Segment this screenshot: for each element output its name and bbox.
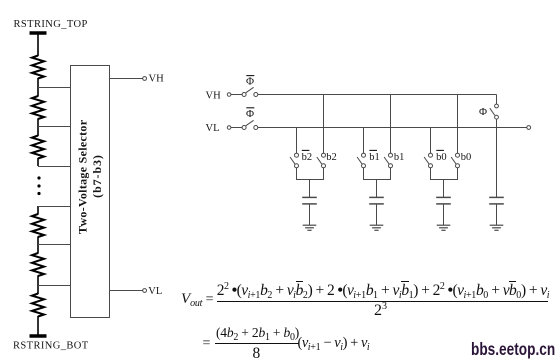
svg-text:Φ: Φ <box>246 76 254 88</box>
capacitor C2 <box>302 196 317 198</box>
resistor R2 <box>32 96 44 119</box>
equation line2 equals <box>203 337 211 351</box>
block U1 Two-Voltage Selector <box>71 66 110 318</box>
switch S3 top contact <box>495 104 499 108</box>
equation line1 denominator <box>374 303 387 319</box>
terminal bar RSTRING_BOT <box>30 334 47 337</box>
switch S3 phi (right) <box>489 95 504 231</box>
svg-text:VL: VL <box>206 123 220 134</box>
switch S1 right contact <box>254 93 258 97</box>
wire resistor string vertical segments <box>37 33 39 56</box>
wire b0 to join bar <box>457 168 459 180</box>
wire b2 drop from VH <box>323 95 325 154</box>
svg-text:RSTRING_TOP: RSTRING_TOP <box>14 19 88 30</box>
svg-text:b0: b0 <box>436 152 447 163</box>
bit group b2 <box>290 95 326 231</box>
ground (C0) <box>437 224 451 226</box>
wire tap6 <box>38 285 71 287</box>
wire VL rail <box>258 127 527 129</box>
terminal circle output <box>527 126 531 130</box>
wire VH rail <box>258 94 497 96</box>
wire VH terminal to switch <box>231 94 242 96</box>
svg-text:RSTRING_BOT: RSTRING_BOT <box>13 341 89 352</box>
switch b2bar lever <box>290 157 295 164</box>
wire join bar b0 <box>430 179 458 181</box>
switch S2 phi-bar on VL: left contact <box>242 126 246 130</box>
switch b0bar lever <box>424 157 429 164</box>
wire S3 to VL rail and hold capacitor <box>496 119 498 197</box>
switch S3 bottom contact <box>495 115 499 119</box>
resistor R1 <box>32 56 44 79</box>
bit group b1 <box>357 95 392 231</box>
wire capacitor C0 to ground <box>443 204 445 225</box>
switch S1 phi-bar on VH: left contact <box>242 93 246 97</box>
wire b1 drop from VH <box>390 95 392 154</box>
wire tap1 <box>38 87 71 89</box>
wire VH corner down <box>496 95 498 105</box>
equation line2 numerator <box>216 326 299 340</box>
switch b0bar bottom contact <box>429 164 433 168</box>
wire b2bar to join bar <box>296 168 298 180</box>
wire capacitor C2 to ground <box>309 204 311 225</box>
ground (C1) <box>370 224 384 226</box>
svg-text:(b7-b3): (b7-b3) <box>90 154 104 198</box>
svg-text:VH: VH <box>149 74 165 85</box>
bit group b0 <box>424 95 459 231</box>
resistor R3 <box>32 136 44 159</box>
resistor R6 <box>32 294 44 317</box>
wire b1 to join bar <box>390 168 392 180</box>
svg-text:Φ: Φ <box>246 108 254 120</box>
wire b0bar drop from VL <box>430 128 432 154</box>
wire bar to capacitor C0 <box>443 180 445 198</box>
svg-text:b2: b2 <box>302 152 313 163</box>
wire join bar b1 <box>363 179 391 181</box>
equation Vout lhs <box>181 292 213 307</box>
equation line1 numerator <box>217 281 549 299</box>
switch S3 lever <box>490 108 495 115</box>
terminal bar RSTRING_TOP <box>30 31 47 34</box>
wire tap2 <box>38 126 71 128</box>
switch b1 top contact <box>389 153 393 157</box>
wire b1bar to join bar <box>363 168 365 180</box>
wire b1bar drop from VL <box>363 128 365 154</box>
switch b0bar top contact <box>429 153 433 157</box>
terminal circle VL input <box>227 126 231 130</box>
switch b0 top contact <box>456 153 460 157</box>
wire bar to capacitor C1 <box>376 180 378 198</box>
svg-text:VH: VH <box>206 91 222 102</box>
capacitor C0 <box>436 196 451 198</box>
switch S2 lever <box>246 120 254 125</box>
switch b1bar bottom contact <box>362 164 366 168</box>
switch b1bar lever <box>357 157 362 164</box>
wire capacitor Chold to ground <box>496 204 498 225</box>
wire tap3 <box>38 166 71 168</box>
wire resistor string vertical segments (lower) <box>37 206 39 215</box>
svg-text:b1: b1 <box>394 152 405 163</box>
svg-text:b2: b2 <box>326 152 337 163</box>
switch b2 bottom contact <box>322 164 326 168</box>
ground (Chold) <box>490 224 504 226</box>
equation line2 tail <box>298 336 370 351</box>
wire bar to capacitor C2 <box>309 180 311 198</box>
switch b1bar top contact <box>362 153 366 157</box>
wire b0bar to join bar <box>430 168 432 180</box>
wire join bar b2 <box>296 179 324 181</box>
resistor R5 <box>32 253 44 276</box>
wire VL output of U1 <box>110 290 143 292</box>
svg-text:b1: b1 <box>369 152 380 163</box>
switch b0 lever <box>451 157 456 164</box>
wire capacitor C1 to ground <box>376 204 378 225</box>
equation line1 fraction bar <box>217 301 549 302</box>
svg-text:Φ: Φ <box>479 106 487 118</box>
svg-text:Two-Voltage Selector: Two-Voltage Selector <box>76 119 90 234</box>
equation line2 fraction bar <box>215 343 299 344</box>
capacitor Chold <box>489 196 504 198</box>
switch b1 bottom contact <box>389 164 393 168</box>
wire b2 to join bar <box>323 168 325 180</box>
terminal circle VL of U1 <box>143 289 147 293</box>
ground (C2) <box>303 224 317 226</box>
switch S2 right contact <box>254 126 258 130</box>
equation line2 denominator <box>253 346 261 361</box>
wire VL terminal to switch <box>231 127 242 129</box>
switch S1 lever <box>246 87 254 92</box>
wire b0 drop from VH <box>457 95 459 154</box>
wire b2bar drop from VL <box>296 128 298 154</box>
switch b1 lever <box>384 157 389 164</box>
svg-text:VL: VL <box>148 286 162 297</box>
switch b2bar top contact <box>295 153 299 157</box>
wire VH output of U1 <box>110 78 143 80</box>
wire tap4 <box>38 206 71 208</box>
switch b0 bottom contact <box>456 164 460 168</box>
ellipsis dots of resistor string <box>37 176 40 179</box>
terminal circle VH of U1 <box>143 77 147 81</box>
switch b2bar bottom contact <box>295 164 299 168</box>
switch b2 top contact <box>322 153 326 157</box>
wire tap5 <box>38 244 71 246</box>
terminal circle VH input <box>227 93 231 97</box>
capacitor C1 <box>369 196 384 198</box>
resistor R4 <box>32 214 44 237</box>
svg-text:b0: b0 <box>461 152 472 163</box>
switch b2 lever <box>317 157 322 164</box>
watermark bbs.eetop.cn <box>471 339 540 360</box>
